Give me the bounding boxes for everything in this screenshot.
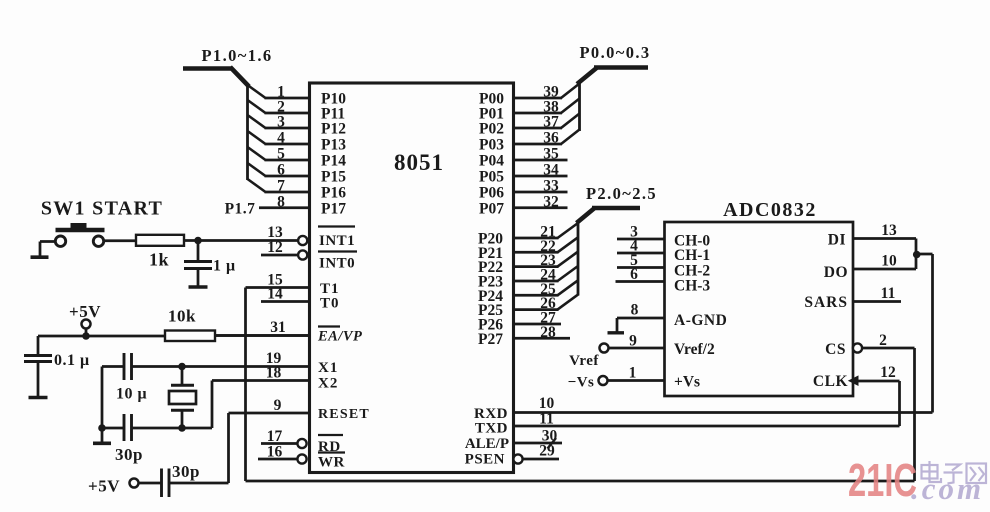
svg-text:Vref: Vref	[569, 353, 599, 369]
svg-text:9: 9	[629, 333, 637, 350]
svg-text:8051: 8051	[394, 150, 444, 175]
svg-text:3: 3	[277, 114, 285, 131]
svg-text:33: 33	[543, 178, 559, 195]
svg-text:A-GND: A-GND	[674, 312, 727, 329]
svg-text:+5V: +5V	[88, 477, 120, 496]
svg-text:11: 11	[539, 411, 554, 428]
svg-text:DI: DI	[828, 232, 846, 249]
svg-text:16: 16	[267, 444, 283, 461]
svg-text:Vref/2: Vref/2	[674, 341, 715, 358]
svg-text:P1.7: P1.7	[225, 201, 256, 218]
svg-text:4: 4	[277, 130, 285, 147]
svg-text:36: 36	[543, 130, 559, 147]
svg-text:INT0: INT0	[319, 256, 355, 272]
svg-text:P13: P13	[321, 137, 346, 154]
svg-text:8: 8	[277, 193, 285, 210]
svg-text:1: 1	[629, 365, 637, 382]
svg-text:P14: P14	[321, 153, 346, 170]
svg-text:X1: X1	[318, 360, 338, 376]
svg-text:P12: P12	[321, 121, 346, 138]
svg-text:P27: P27	[478, 331, 503, 348]
svg-text:P07: P07	[479, 200, 504, 217]
svg-text:T0: T0	[320, 296, 340, 312]
svg-text:.com: .com	[911, 471, 984, 506]
svg-text:P16: P16	[321, 185, 346, 202]
svg-text:P0.0~0.3: P0.0~0.3	[579, 43, 650, 62]
svg-text:P05: P05	[479, 169, 504, 186]
svg-text:10 μ: 10 μ	[116, 386, 147, 403]
svg-text:1 μ: 1 μ	[213, 258, 236, 275]
svg-text:6: 6	[630, 266, 638, 283]
svg-text:6: 6	[277, 162, 285, 179]
svg-text:9: 9	[274, 397, 282, 414]
svg-text:10k: 10k	[168, 307, 196, 326]
svg-text:12: 12	[880, 364, 896, 381]
svg-text:14: 14	[267, 286, 283, 303]
svg-text:SARS: SARS	[804, 294, 848, 311]
svg-text:8: 8	[631, 302, 639, 319]
svg-text:10: 10	[539, 395, 555, 412]
svg-text:5: 5	[277, 146, 285, 163]
svg-text:TXD: TXD	[475, 421, 508, 437]
svg-text:CH-3: CH-3	[674, 278, 710, 295]
svg-text:13: 13	[881, 222, 897, 239]
svg-text:31: 31	[270, 319, 286, 336]
svg-text:INT1: INT1	[319, 233, 355, 249]
svg-text:0.1 μ: 0.1 μ	[54, 352, 90, 369]
svg-text:P17: P17	[321, 200, 346, 217]
svg-text:P2.0~2.5: P2.0~2.5	[586, 184, 657, 203]
svg-text:ADC0832: ADC0832	[723, 199, 817, 221]
svg-text:SW1 START: SW1 START	[41, 198, 163, 220]
svg-text:32: 32	[543, 193, 559, 210]
svg-text:34: 34	[543, 162, 559, 179]
svg-text:P03: P03	[479, 137, 504, 154]
svg-text:30p: 30p	[172, 462, 200, 481]
svg-text:1k: 1k	[149, 250, 169, 270]
svg-text:P04: P04	[479, 153, 504, 170]
svg-text:P02: P02	[479, 121, 504, 138]
svg-text:18: 18	[266, 365, 282, 382]
svg-text:CLK: CLK	[813, 373, 848, 390]
svg-text:RESET: RESET	[318, 407, 370, 422]
svg-text:2: 2	[879, 332, 887, 349]
svg-text:17: 17	[267, 428, 283, 445]
svg-text:37: 37	[543, 114, 559, 131]
svg-text:EA/VP: EA/VP	[317, 329, 362, 345]
svg-text:CH-1: CH-1	[674, 247, 710, 264]
svg-text:PSEN: PSEN	[465, 452, 505, 468]
svg-text:7: 7	[277, 178, 285, 195]
svg-text:29: 29	[539, 443, 555, 460]
svg-text:WR: WR	[318, 455, 345, 471]
svg-text:P1.0~1.6: P1.0~1.6	[201, 46, 272, 65]
svg-text:CS: CS	[825, 341, 846, 358]
svg-text:10: 10	[881, 253, 897, 270]
svg-text:−Vs: −Vs	[568, 375, 595, 391]
svg-text:11: 11	[881, 285, 896, 302]
svg-text:X2: X2	[318, 376, 338, 392]
svg-text:+5V: +5V	[69, 302, 101, 321]
svg-text:12: 12	[267, 239, 283, 256]
svg-text:35: 35	[543, 146, 559, 163]
svg-text:21IC: 21IC	[848, 454, 917, 506]
svg-text:+Vs: +Vs	[674, 374, 700, 391]
svg-text:30p: 30p	[115, 445, 143, 464]
svg-text:P06: P06	[479, 185, 504, 202]
svg-text:28: 28	[540, 324, 556, 341]
svg-text:ALE/P: ALE/P	[465, 436, 509, 452]
svg-text:P15: P15	[321, 169, 346, 186]
svg-text:DO: DO	[824, 264, 848, 281]
